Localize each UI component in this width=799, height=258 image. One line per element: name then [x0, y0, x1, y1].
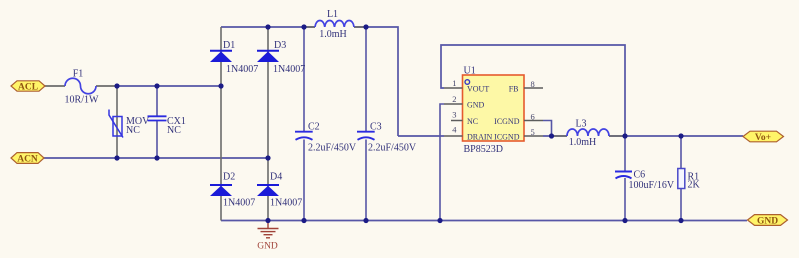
capacitor C6: [615, 170, 675, 192]
svg-text:1.0mH: 1.0mH: [569, 137, 597, 148]
fuse F1: [65, 69, 99, 106]
svg-text:Vo+: Vo+: [755, 133, 771, 143]
svg-text:2K: 2K: [688, 180, 701, 191]
wire main output line L3 to Vo+ flag: [609, 135, 743, 137]
svg-text:1N4007: 1N4007: [226, 64, 258, 75]
svg-text:C3: C3: [370, 122, 382, 133]
pin 3 NC: [451, 110, 478, 126]
svg-text:1N4007: 1N4007: [273, 64, 305, 75]
wire C6 column x=625: [624, 136, 626, 221]
svg-text:1N4007: 1N4007: [270, 198, 302, 209]
svg-text:L1: L1: [327, 9, 338, 20]
flag ACN: [11, 153, 44, 165]
svg-text:ICGND: ICGND: [494, 132, 520, 141]
svg-text:U1: U1: [464, 66, 476, 77]
capacitor CX1: [148, 116, 186, 136]
wire R1 column x=681: [680, 136, 682, 221]
svg-text:100uF/16V: 100uF/16V: [629, 180, 675, 191]
diode D1: [210, 40, 258, 75]
junction dots row C: [114, 155, 270, 160]
svg-text:F1: F1: [73, 69, 84, 80]
svg-text:2: 2: [452, 94, 456, 104]
svg-text:ACN: ACN: [17, 155, 38, 165]
svg-text:8: 8: [531, 79, 535, 89]
junction dots main line: [549, 133, 684, 138]
wire C2 column x=304: [303, 27, 305, 221]
wire D1/D2 column x=221: [220, 27, 222, 221]
junction dots bottom rail: [265, 218, 683, 223]
svg-text:2.2uF/450V: 2.2uF/450V: [368, 143, 417, 154]
wire MOV column x=117: [116, 86, 118, 158]
svg-text:D4: D4: [270, 172, 282, 183]
pin 6 ICGND: [494, 112, 543, 126]
svg-text:C2: C2: [308, 122, 320, 133]
capacitor C3: [357, 122, 417, 154]
svg-text:10R/1W: 10R/1W: [65, 95, 99, 106]
junction dots top rail: [265, 24, 368, 29]
flag GND output: [748, 215, 788, 227]
svg-text:D2: D2: [223, 172, 235, 183]
flag Vo+: [743, 131, 784, 143]
inductor L3: [551, 119, 625, 149]
svg-text:1N4007: 1N4007: [223, 198, 255, 209]
svg-text:6: 6: [531, 112, 535, 122]
pin 5 ICGND: [494, 127, 543, 141]
diode D2: [210, 172, 255, 209]
diode D4: [257, 172, 302, 209]
svg-text:C6: C6: [634, 170, 646, 181]
varistor MOV: [109, 110, 150, 138]
ground symbol bridge: [257, 221, 278, 252]
pin 4 DRAIN: [444, 125, 493, 142]
svg-text:ACL: ACL: [18, 83, 38, 93]
wire row C (ACN line) y=158: [44, 157, 268, 159]
svg-text:NC: NC: [167, 125, 181, 136]
pin 2 GND: [444, 94, 485, 109]
pin 8 FB: [509, 79, 543, 93]
junction dots row B: [114, 83, 223, 88]
svg-text:2.2uF/450V: 2.2uF/450V: [308, 143, 357, 154]
svg-text:VOUT: VOUT: [467, 84, 489, 93]
wire pin2 GND vertical x=440: [440, 104, 444, 221]
svg-text:BP8523D: BP8523D: [464, 144, 503, 155]
flag ACL: [11, 81, 45, 93]
svg-text:FB: FB: [509, 84, 519, 93]
svg-text:GND: GND: [257, 242, 278, 252]
svg-text:ICGND: ICGND: [494, 117, 520, 126]
inductor L1: [304, 9, 366, 40]
resistor R1: [678, 169, 701, 191]
capacitor C2: [295, 122, 357, 154]
svg-text:1: 1: [452, 78, 456, 88]
svg-text:5: 5: [531, 127, 535, 137]
wire D3/D4 column x=268: [267, 27, 269, 221]
svg-text:3: 3: [452, 110, 456, 120]
wire row B (ACL line) y=86: [45, 85, 221, 87]
svg-text:GND: GND: [467, 100, 485, 109]
svg-text:L3: L3: [575, 119, 586, 130]
wire pin5/pin6 to L3 junction x=551: [543, 121, 567, 137]
svg-text:D3: D3: [274, 40, 286, 51]
svg-text:1.0mH: 1.0mH: [319, 29, 347, 40]
wire main line y=136 bridge to chip pin4: [398, 135, 444, 137]
wire CX1 column x=157: [156, 86, 158, 158]
svg-text:D1: D1: [223, 40, 235, 51]
wire C3 column x=366: [365, 27, 367, 221]
svg-text:NC: NC: [467, 117, 478, 126]
pin 1 VOUT: [444, 78, 489, 93]
wire top rail y=27 from D1 col to L1 and corner x=398: [221, 27, 398, 136]
wire bottom GND rail y=220.5: [221, 220, 747, 222]
svg-text:GND: GND: [757, 217, 778, 227]
op-amp U1 BP8523D chip body: [463, 66, 525, 156]
svg-text:DRAIN: DRAIN: [467, 132, 493, 141]
wire VOUT top loop pin1 to output node: [441, 45, 625, 136]
svg-text:NC: NC: [126, 125, 140, 136]
diode D3: [257, 40, 305, 75]
